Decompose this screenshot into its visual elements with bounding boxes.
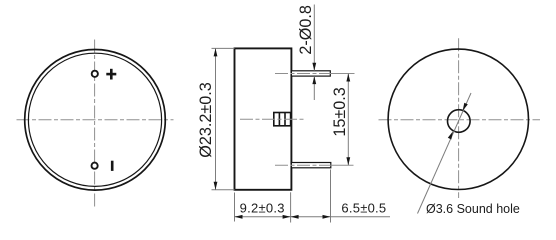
svg-text:9.2±0.3: 9.2±0.3: [240, 201, 285, 216]
svg-text:6.5±0.5: 6.5±0.5: [341, 201, 386, 216]
svg-text:Ø3.6 Sound hole: Ø3.6 Sound hole: [426, 202, 520, 216]
svg-text:Ø23.2±0.3: Ø23.2±0.3: [197, 82, 215, 157]
svg-text:2-Ø0.8: 2-Ø0.8: [297, 5, 315, 55]
svg-text:15±0.3: 15±0.3: [331, 87, 349, 136]
